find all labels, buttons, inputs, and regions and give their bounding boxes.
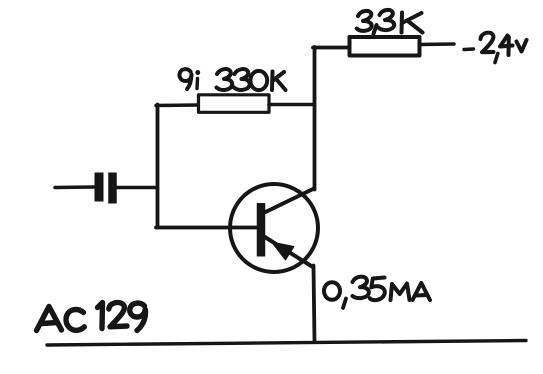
wire left vertical from R2 left end down to base wire	[156, 105, 160, 228]
capacitor C1 input coupling	[55, 173, 156, 204]
wire R1 right lead to supply	[420, 42, 455, 46]
resistor R2 330K body	[199, 95, 270, 113]
label 0,35MA emitter current	[324, 277, 430, 308]
capacitor C1 right plate	[108, 173, 117, 204]
wire emitter vertical down to ground rail	[314, 266, 315, 343]
label 9i 330K for R2	[180, 69, 286, 90]
wire collector vertical net	[313, 47, 317, 190]
label 3,3K for R1	[357, 10, 423, 34]
resistor R1 3.3K body	[350, 37, 420, 56]
wire R2 left lead	[156, 103, 199, 107]
transistor Q1 collector stroke	[264, 189, 315, 214]
capacitor C1 left plate	[95, 173, 104, 202]
label -2,4V supply voltage	[464, 33, 527, 63]
transistor Q1 AC129 circle	[230, 184, 318, 272]
wire capacitor left lead	[55, 185, 95, 189]
transistor Q1 emitter arrow (PNP, pointing to base)	[272, 242, 295, 260]
wire capacitor right lead to node B	[117, 186, 156, 190]
wire base horizontal from node B to transistor base	[156, 226, 258, 230]
ground rail bottom	[47, 341, 526, 346]
transistor Q1 emitter stroke	[264, 237, 312, 267]
transistor Q1 base bar	[257, 203, 266, 257]
wire R2 right lead to collector net	[269, 103, 314, 107]
wire R1 left lead with corner	[313, 46, 349, 50]
label AC 129 transistor type	[37, 303, 146, 331]
